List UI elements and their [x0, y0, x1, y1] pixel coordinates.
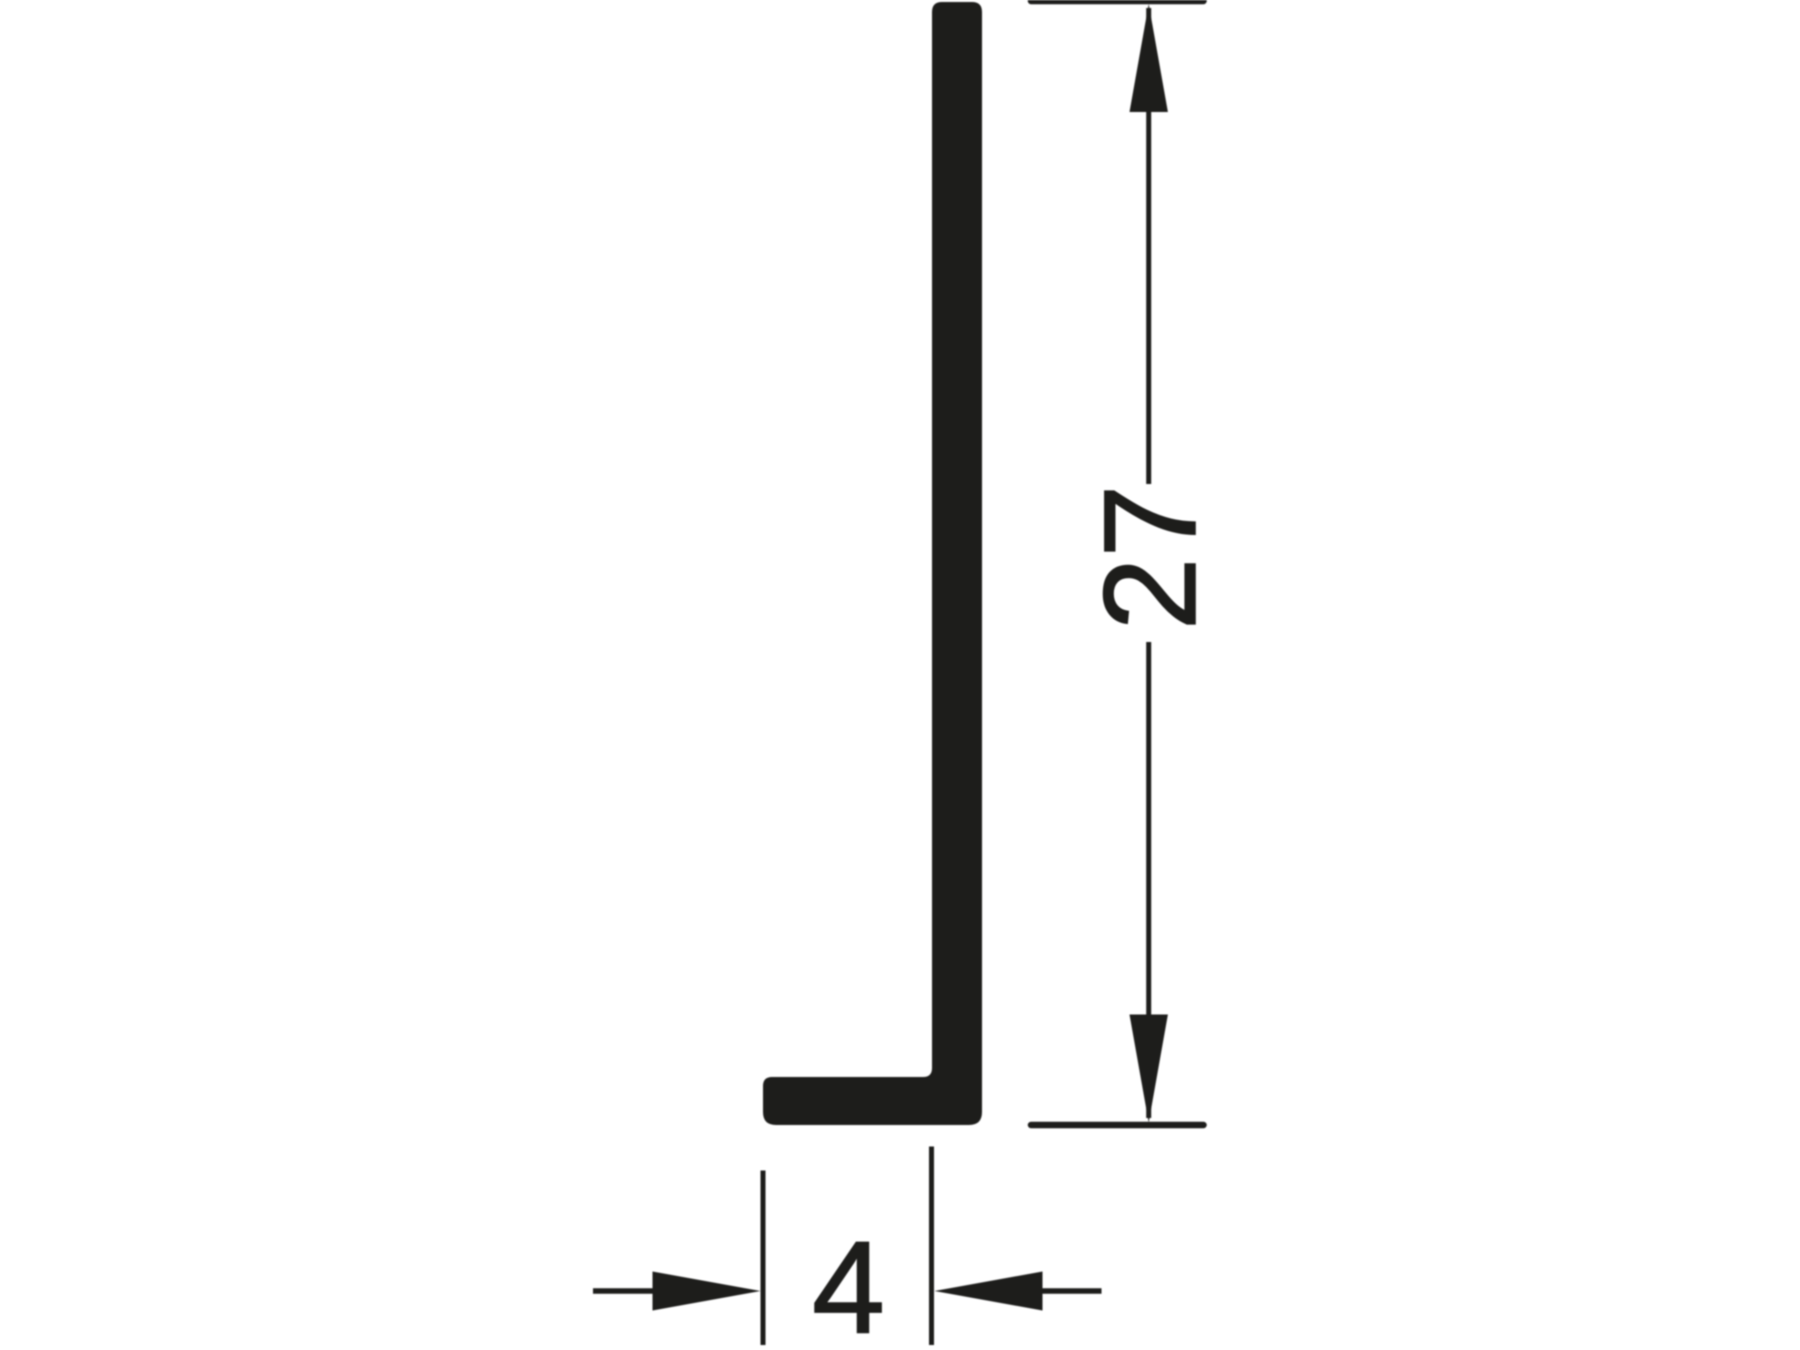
dimension 4: right arrowhead	[935, 1272, 1043, 1311]
L-profile cross-section (27 x 4 angle)	[763, 2, 982, 1125]
dimension 27: bottom tick line	[1031, 1122, 1204, 1129]
svg-text:27: 27	[1076, 485, 1223, 631]
svg-text:4: 4	[812, 1214, 885, 1350]
dimension 4: right extension line	[929, 1147, 934, 1346]
dimension 27: bottom arrowhead	[1130, 1015, 1168, 1123]
dimension 27: top tick line	[1031, 0, 1204, 4]
dimension 27: upper dimension line segment	[1146, 8, 1151, 484]
dimension 4: left extension line	[761, 1171, 766, 1346]
dimension 27: top arrowhead	[1130, 4, 1168, 112]
dimension 27: lower dimension line segment	[1146, 642, 1151, 1118]
dimension 4: left arrowhead	[653, 1272, 761, 1311]
dimension 4: left arrow tail	[593, 1288, 655, 1294]
dimension 4: right arrow tail	[1042, 1288, 1102, 1294]
